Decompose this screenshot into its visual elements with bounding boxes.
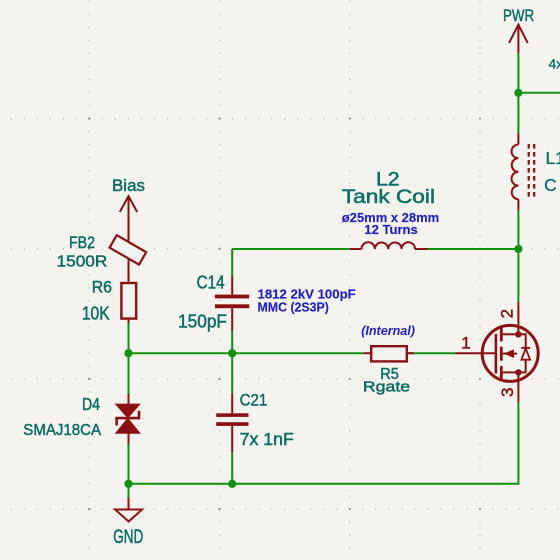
svg-text:3: 3 bbox=[498, 388, 517, 397]
svg-text:7x 1nF: 7x 1nF bbox=[240, 429, 294, 449]
svg-text:12 Turns: 12 Turns bbox=[364, 222, 418, 237]
svg-text:1812 2kV 100pF: 1812 2kV 100pF bbox=[258, 288, 357, 302]
svg-text:PWR: PWR bbox=[503, 6, 534, 25]
svg-text:150pF: 150pF bbox=[178, 312, 227, 332]
svg-text:SMAJ18CA: SMAJ18CA bbox=[23, 422, 101, 439]
svg-text:10K: 10K bbox=[82, 303, 110, 324]
svg-text:2: 2 bbox=[497, 309, 516, 318]
svg-text:C14: C14 bbox=[197, 273, 225, 293]
svg-text:FB2: FB2 bbox=[69, 234, 95, 252]
svg-text:1500R: 1500R bbox=[57, 254, 108, 271]
svg-text:D4: D4 bbox=[82, 394, 100, 414]
svg-text:Rgate: Rgate bbox=[363, 379, 410, 396]
svg-text:GND: GND bbox=[113, 526, 143, 548]
svg-text:MMC (2S3P): MMC (2S3P) bbox=[258, 301, 329, 315]
svg-text:C: C bbox=[544, 175, 557, 195]
svg-text:4x: 4x bbox=[549, 56, 560, 72]
svg-text:Bias: Bias bbox=[112, 176, 145, 195]
svg-text:C21: C21 bbox=[240, 391, 268, 409]
svg-text:(Internal): (Internal) bbox=[361, 323, 415, 338]
svg-text:Tank Coil: Tank Coil bbox=[342, 187, 435, 208]
svg-text:L1: L1 bbox=[546, 148, 560, 168]
svg-text:1: 1 bbox=[461, 333, 470, 352]
svg-text:R6: R6 bbox=[92, 278, 112, 296]
